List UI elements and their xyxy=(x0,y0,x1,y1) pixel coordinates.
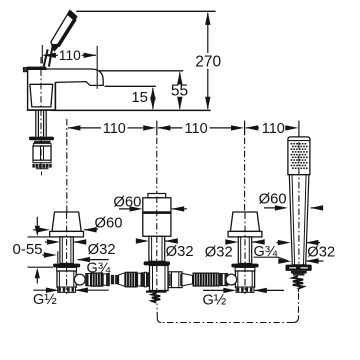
svg-text:Ø32: Ø32 xyxy=(205,245,233,261)
svg-text:15: 15 xyxy=(131,89,148,106)
svg-text:G½: G½ xyxy=(203,292,227,309)
svg-text:G½: G½ xyxy=(33,291,57,308)
svg-text:110: 110 xyxy=(185,121,208,137)
svg-text:Ø60: Ø60 xyxy=(259,192,287,208)
svg-text:Ø32: Ø32 xyxy=(307,245,335,261)
svg-text:Ø32: Ø32 xyxy=(166,244,194,260)
svg-text:Ø60: Ø60 xyxy=(95,216,123,232)
svg-text:0-55: 0-55 xyxy=(12,241,42,258)
svg-text:Ø32: Ø32 xyxy=(88,242,116,258)
svg-text:110: 110 xyxy=(59,48,81,63)
svg-text:110: 110 xyxy=(103,121,126,137)
svg-text:110: 110 xyxy=(262,121,285,137)
svg-text:G¾: G¾ xyxy=(87,259,111,276)
svg-text:270: 270 xyxy=(195,53,221,70)
